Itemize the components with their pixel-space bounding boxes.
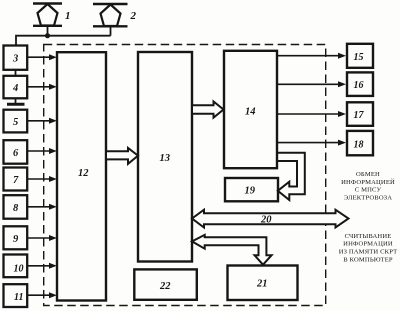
wire 11-12 bbox=[27, 294, 50, 296]
wire 9-12 bbox=[27, 237, 50, 239]
svg-text:ОБМЕН: ОБМЕН bbox=[356, 171, 380, 178]
svg-text:13: 13 bbox=[160, 153, 171, 164]
block 14 bbox=[224, 51, 277, 168]
svg-text:22: 22 bbox=[159, 281, 171, 292]
box 5 bbox=[4, 110, 28, 133]
wire pantograph 1 drop bbox=[47, 26, 49, 36]
wire 8-12 bbox=[27, 206, 50, 208]
wire 10-12 bbox=[27, 265, 50, 267]
box 17 bbox=[347, 102, 373, 126]
svg-text:ИНФОРМАЦИИ: ИНФОРМАЦИИ bbox=[343, 241, 393, 248]
wire 14-17 bbox=[277, 113, 339, 115]
wire 14-16 bbox=[277, 83, 339, 85]
svg-text:3: 3 bbox=[12, 54, 18, 65]
box 11 bbox=[4, 284, 28, 307]
arrow 12-13 bbox=[106, 148, 138, 164]
box 22 bbox=[134, 269, 197, 299]
box 4 bbox=[4, 76, 28, 99]
svg-text:В КОМПЬЮТЕР: В КОМПЬЮТЕР bbox=[343, 256, 393, 263]
arrow 20 double-headed bbox=[192, 210, 349, 228]
ground bbox=[15, 98, 17, 103]
note: readout to computer text bbox=[339, 233, 398, 264]
block 13 bbox=[138, 52, 192, 262]
svg-text:11: 11 bbox=[14, 292, 23, 303]
svg-text:ИНФОРМАЦИЕЙ: ИНФОРМАЦИЕЙ bbox=[341, 178, 395, 186]
svg-text:ИЗ ПАМЯТИ СКРТ: ИЗ ПАМЯТИ СКРТ bbox=[339, 249, 398, 256]
wire bus bbox=[16, 36, 111, 46]
pantograph 1 bbox=[33, 4, 62, 26]
svg-text:5: 5 bbox=[13, 117, 18, 128]
svg-text:20: 20 bbox=[260, 215, 272, 226]
wire 4-12 bbox=[27, 86, 50, 88]
svg-text:12: 12 bbox=[78, 168, 89, 179]
wire 6-12 bbox=[27, 150, 50, 152]
junction dot bbox=[45, 33, 50, 38]
box 18 bbox=[347, 131, 373, 155]
svg-text:10: 10 bbox=[14, 263, 24, 274]
box 16 bbox=[347, 72, 373, 96]
svg-text:9: 9 bbox=[13, 234, 19, 245]
box 19 bbox=[225, 178, 278, 201]
svg-text:2: 2 bbox=[130, 10, 137, 22]
box 7 bbox=[4, 168, 28, 191]
wire pantograph 2 drop bbox=[110, 26, 112, 35]
arrow 13-21 bent double-headed bbox=[192, 235, 272, 265]
svg-text:19: 19 bbox=[245, 186, 256, 197]
block 12 bbox=[57, 52, 106, 300]
wire 3-4 bbox=[15, 70, 17, 76]
svg-text:С МПСУ: С МПСУ bbox=[355, 187, 382, 194]
svg-text:1: 1 bbox=[65, 10, 71, 22]
wire 14-18 bbox=[277, 142, 339, 144]
svg-text:8: 8 bbox=[13, 203, 19, 214]
svg-text:15: 15 bbox=[354, 52, 364, 63]
box 10 bbox=[4, 255, 28, 278]
dashed enclosure bbox=[44, 45, 326, 306]
box 3 bbox=[4, 46, 28, 70]
svg-text:СЧИТЫВАНИЕ: СЧИТЫВАНИЕ bbox=[345, 233, 392, 240]
box 15 bbox=[347, 44, 373, 68]
box 9 bbox=[4, 226, 28, 249]
note: MPSU exchange text bbox=[341, 171, 395, 201]
arrow 14-19 bent bbox=[277, 153, 305, 200]
arrow 13-14 bbox=[192, 102, 224, 118]
box 8 bbox=[4, 195, 28, 219]
svg-text:14: 14 bbox=[245, 107, 256, 118]
box 6 bbox=[4, 140, 28, 164]
svg-text:17: 17 bbox=[354, 110, 365, 121]
wire 14-15 bbox=[277, 55, 339, 57]
block 21 bbox=[228, 266, 298, 301]
wire 5-12 bbox=[27, 120, 50, 122]
svg-text:4: 4 bbox=[12, 83, 18, 94]
svg-text:7: 7 bbox=[13, 175, 19, 186]
svg-text:18: 18 bbox=[354, 140, 364, 151]
svg-text:16: 16 bbox=[354, 80, 364, 91]
wire 7-12 bbox=[27, 178, 50, 180]
pantograph 2 bbox=[93, 4, 128, 26]
svg-text:21: 21 bbox=[256, 279, 268, 290]
wire 3-12 bbox=[27, 56, 50, 58]
svg-text:ЭЛЕКТРОВОЗА: ЭЛЕКТРОВОЗА bbox=[344, 194, 392, 201]
svg-text:6: 6 bbox=[13, 148, 19, 159]
